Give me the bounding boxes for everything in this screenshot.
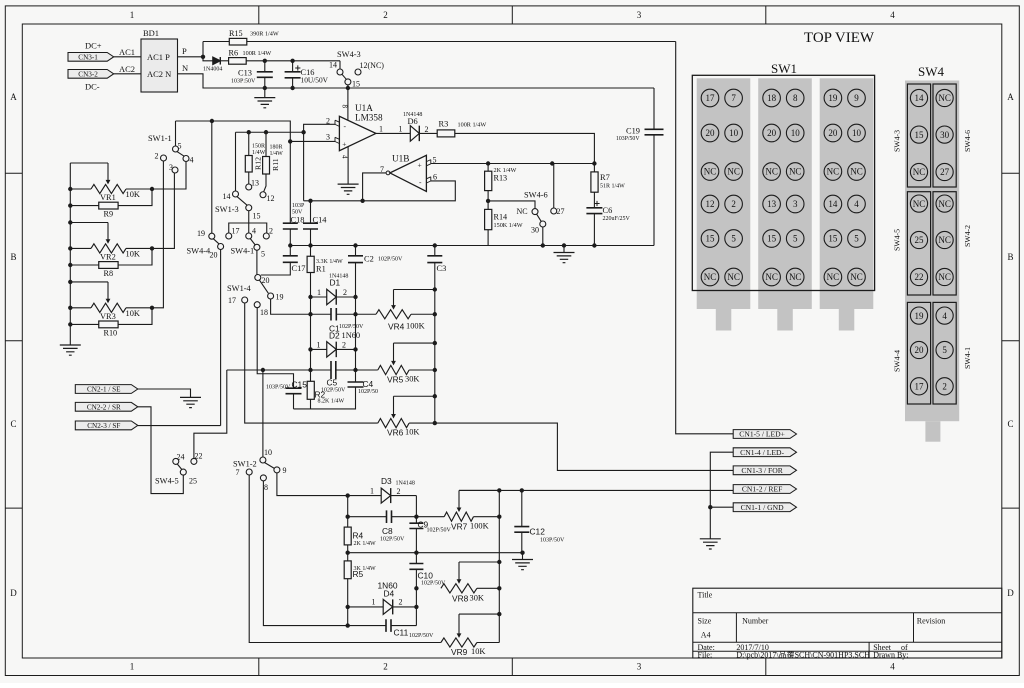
wire R15 branch up [202,42,204,57]
switch SW1-2 pin 10 [260,457,266,463]
wire U1A pin4 to ground [347,147,349,185]
junction R13 top [486,161,490,165]
junction C10 top [414,551,418,555]
wire VR6 row to CN1-3 FOR [435,423,733,470]
connector CN3-2 [68,64,135,92]
potentiometer VR7 [416,490,499,531]
svg-text:C10: C10 [418,571,434,581]
svg-text:R11: R11 [271,158,280,171]
connector CN3-1 [68,41,135,62]
potentiometer VR4 [356,287,437,331]
svg-text:NC: NC [789,272,802,282]
svg-text:103P/50V: 103P/50V [266,385,291,391]
svg-text:51R 1/4W: 51R 1/4W [600,184,625,190]
switch SW4-6 pin NC [532,209,538,215]
svg-text:NC: NC [850,167,863,177]
svg-text:8: 8 [341,105,349,109]
svg-text:7: 7 [731,93,736,103]
switch SW1-4 pin 18 [254,302,260,308]
switch SW1-2 pin 9 [274,467,280,473]
svg-text:1: 1 [130,10,135,20]
svg-text:NC: NC [727,272,740,282]
op-amp U1B [380,154,437,192]
junction VR9 wiper [497,612,501,616]
svg-text:15: 15 [915,130,925,140]
svg-text:2: 2 [342,341,346,350]
switch SW1-3 pin 4 [246,233,252,239]
ground U1A [338,184,359,194]
pins 17 4 2 labels [232,227,274,236]
svg-text:10: 10 [729,128,739,138]
wire REF row [459,489,733,491]
wire R13 node to SW4-6 NC [488,201,535,209]
svg-text:14: 14 [329,61,337,70]
svg-text:CN3-2: CN3-2 [78,70,98,78]
switch SW1-2 pin 8 [260,475,266,481]
svg-text:SW1: SW1 [771,61,797,76]
capacitor C16 electrolytic [285,61,329,88]
svg-text:N: N [182,63,188,73]
svg-text:390R 1/4W: 390R 1/4W [250,31,279,38]
svg-text:100K: 100K [470,522,489,531]
potentiometer VR6 [378,394,437,437]
svg-text:P: P [182,46,187,56]
svg-text:2K 1/4W: 2K 1/4W [354,541,377,547]
svg-text:B: B [10,252,16,262]
switch SW1-1 pin 3 [172,167,178,173]
svg-text:1/4W: 1/4W [252,150,266,156]
svg-text:NC: NC [765,167,778,177]
svg-text:3: 3 [793,199,798,209]
svg-text:4: 4 [252,227,256,236]
svg-text:SW4-6: SW4-6 [524,191,548,200]
switch SW4-4 pin 19 [209,233,215,239]
svg-text:5: 5 [854,234,859,244]
svg-text:NC: NC [850,272,863,282]
svg-text:SW4-2: SW4-2 [963,225,972,247]
svg-text:1N60: 1N60 [342,331,361,340]
svg-text:SW4-4: SW4-4 [893,350,902,372]
svg-text:15: 15 [767,234,777,244]
svg-text:8.2K 1/4W: 8.2K 1/4W [318,399,345,405]
wire CN2-3 to SW4-4 pin20 [138,425,221,427]
resistor R9 [68,189,152,219]
junction R13 R14 node [486,199,490,203]
svg-text:2: 2 [942,382,947,392]
svg-text:CN1-2 / REF: CN1-2 / REF [742,485,783,494]
switch SW1-3 pin 13 [246,184,252,190]
svg-text:D: D [10,588,17,598]
wire VR2 to pin3 [152,173,174,248]
svg-text:102P/50V: 102P/50V [380,537,405,543]
svg-text:CN1-4 / LED-: CN1-4 / LED- [740,448,784,457]
wire pin17 to VR6 row [245,303,378,423]
wire C14 to bus [310,229,312,256]
svg-text:3: 3 [637,10,642,20]
connector CN1-5 LED+ [733,430,796,439]
svg-text:SW4-4: SW4-4 [187,247,212,256]
svg-text:1: 1 [370,487,374,496]
svg-text:2: 2 [155,152,159,161]
resistor R11 [263,132,284,174]
wire pin9 to D3 row [277,473,348,496]
wire pin10 down [262,370,264,457]
svg-text:SW4-1: SW4-1 [963,347,972,369]
svg-text:9: 9 [854,93,859,103]
svg-text:D2: D2 [329,331,340,341]
potentiometer VR8 [441,562,499,604]
junction C8 left [346,515,350,519]
svg-text:17: 17 [915,382,925,392]
junction C3 bus [433,243,437,247]
svg-text:2: 2 [383,10,388,20]
svg-text:Title: Title [698,591,713,600]
svg-text:NC: NC [704,167,717,177]
potentiometer VR1 [68,163,154,202]
wire R13 to R14 [487,191,489,210]
wire U1B pin5 row [431,163,595,165]
op-amp U1A [326,103,383,159]
switch block SW1 [692,75,874,330]
junction ground bus [562,243,566,247]
switch SW4-5 lever [177,464,181,469]
wire row 370 left [227,369,311,371]
wire R14 to GND bus [487,230,489,246]
svg-text:7: 7 [236,468,240,477]
switch SW1-3 pin 17 [226,233,232,239]
svg-text:C: C [1007,419,1013,429]
junction C13 top [263,59,267,63]
svg-text:13: 13 [767,199,777,209]
svg-text:4: 4 [190,156,194,165]
wire CN3-2 to BD1 [114,73,141,75]
svg-text:1: 1 [372,598,376,607]
connector CN1-3 FOR [733,466,796,475]
svg-text:NC: NC [827,272,840,282]
junction C16 top [290,59,294,63]
connector CN2-2 SR [75,402,138,411]
ground below C12 [512,553,533,570]
junction VR8 wiper [497,560,501,564]
svg-text:5: 5 [261,250,265,259]
junction row370 left [308,368,312,372]
resistor R6 [220,49,271,65]
resistor R5 [344,561,376,626]
wire R3 to R7 [455,133,595,163]
wire N rail [178,74,655,88]
capacitor C2 [348,246,403,264]
svg-text:220uF/25V: 220uF/25V [603,216,631,222]
wire SW4-3 pin15 to U1A pin8 [347,85,349,121]
junction C1 right [353,312,357,316]
svg-text:AC2 N: AC2 N [147,69,171,79]
switch SW4-3 pin 14 [337,69,343,75]
switch SW4-4 lever [213,239,219,244]
wire U1A pin2 [304,124,335,201]
svg-text:R4: R4 [353,531,364,541]
svg-text:Size: Size [698,617,712,626]
junction VR7 right [497,515,501,519]
switch SW4-3 lever [342,74,346,79]
svg-text:3: 3 [637,662,642,672]
svg-text:10: 10 [264,448,272,457]
switch SW1-3 lever [237,197,247,206]
svg-text:10: 10 [852,128,862,138]
svg-text:CN2-2 / SR: CN2-2 / SR [87,403,121,411]
svg-text:2: 2 [397,487,401,496]
switch SW4-5 [155,452,203,486]
svg-text:20: 20 [767,128,777,138]
junction C13 bottom [263,86,267,90]
svg-text:NC: NC [913,199,926,209]
svg-text:SW4-6: SW4-6 [963,130,972,152]
wire U1A output [376,132,410,134]
svg-text:4: 4 [890,10,895,20]
svg-text:SW1-4: SW1-4 [227,284,252,293]
svg-text:20: 20 [828,128,838,138]
svg-text:18: 18 [260,308,268,317]
connector CN1-1 GND [733,503,796,512]
svg-text:Drawn By:: Drawn By: [873,651,908,660]
wire CN2-2 to SW4-5 pin25 [138,407,184,494]
svg-text:8: 8 [264,483,268,492]
svg-text:14: 14 [223,192,231,201]
diode D3 [348,476,417,503]
junction R7 top [592,161,596,165]
svg-text:10K: 10K [126,249,140,258]
svg-text:C12: C12 [530,527,546,537]
svg-text:SW4-5: SW4-5 [893,229,902,251]
junction V+ rail [346,86,350,90]
ground CN1 [700,539,721,549]
svg-text:1N4004: 1N4004 [203,67,222,73]
switch SW1-4 pin 19 [268,293,274,299]
junction row370 right [353,368,357,372]
switch SW1-2 pin 7 [246,469,252,475]
resistor R2 [307,381,344,409]
svg-text:30K: 30K [470,594,484,603]
svg-text:103P/50V: 103P/50V [540,538,565,544]
svg-text:C4: C4 [363,379,374,389]
svg-text:C15: C15 [292,380,308,390]
svg-text:30K: 30K [405,375,419,384]
svg-text:NC: NC [727,167,740,177]
svg-text:CN2-1 / SE: CN2-1 / SE [87,386,121,394]
svg-text:C3: C3 [437,264,447,273]
svg-text:CN1-3 / FOR: CN1-3 / FOR [741,466,783,475]
svg-text:20: 20 [706,128,716,138]
switch SW1-3 pin 2 [263,233,269,239]
svg-text:C18: C18 [291,216,305,225]
svg-text:103P: 103P [292,203,305,209]
svg-text:10K: 10K [405,428,419,437]
capacitor C17 [283,256,306,273]
svg-text:17: 17 [232,227,240,236]
wire pin5 down to SW1-4 pin20 [256,250,258,274]
svg-text:BD1: BD1 [143,28,159,38]
svg-text:100R 1/4W: 100R 1/4W [243,50,272,57]
svg-text:2: 2 [399,598,403,607]
switch SW4-1 lever [250,239,255,245]
svg-text:27: 27 [557,207,565,216]
svg-text:VR9: VR9 [451,647,468,657]
svg-text:25: 25 [189,477,197,486]
wire R12 to pin13 [248,172,250,184]
junction R11 top [264,130,268,134]
svg-text:C13: C13 [238,69,252,78]
svg-text:102P/50V: 102P/50V [427,528,452,534]
svg-text:U1B: U1B [392,154,409,164]
svg-text:19: 19 [197,229,205,238]
svg-text:D3: D3 [381,476,392,486]
wire pin18 to C15 [257,308,293,389]
svg-text:LM358: LM358 [355,113,383,123]
wire CN3-1 to BD1 [114,56,141,58]
junction pin3 node [288,139,292,143]
svg-text:SW4-5: SW4-5 [155,477,179,486]
svg-text:2: 2 [343,288,347,297]
switch SW4-4 pin 20 [218,244,224,250]
svg-text:30: 30 [531,226,539,235]
resistor R3 [419,120,486,137]
svg-text:R15: R15 [229,29,243,38]
wire R11 to pin12 [264,174,266,192]
switch SW1-4 [227,276,284,317]
wire row SW1-1 to C18 node [176,121,291,223]
switch SW1-4 lever [259,280,268,293]
switch SW1-3 pin 14 [233,191,239,197]
svg-text:4: 4 [942,311,947,321]
junction D3 row left [346,493,350,497]
svg-text:1: 1 [317,341,321,350]
wire SW1-3 row to U1A pin2 [236,131,304,133]
svg-text:103P/50V: 103P/50V [616,136,640,142]
wire SW1-1 pin5 up [175,121,177,146]
svg-text:102P/50V: 102P/50V [378,257,403,263]
capacitor C3 [427,246,446,274]
junction feedback C14 [308,199,312,203]
svg-text:DC+: DC+ [85,41,102,51]
svg-text:13: 13 [251,179,259,188]
capacitor C9 [409,520,451,564]
svg-text:1: 1 [317,288,321,297]
switch SW4-4 [187,229,218,260]
svg-text:20: 20 [262,276,270,285]
switch SW1-2 lever [265,463,275,469]
svg-text:NC: NC [704,272,717,282]
svg-text:4: 4 [341,155,349,159]
wire pin8 to C11 row [263,481,347,626]
svg-text:12: 12 [706,199,715,209]
svg-text:3: 3 [326,133,330,142]
connector CN1-2 REF [733,485,796,494]
wire R1 to R2 vertical [310,273,312,382]
svg-text:C: C [10,419,16,429]
wire C18 to C17 [289,229,291,256]
svg-text:4: 4 [854,199,859,209]
wire pin30 down [542,227,544,246]
svg-text:102P/50: 102P/50 [358,389,378,395]
ground CN2-1 [180,397,201,407]
svg-text:R3: R3 [439,120,449,129]
junction C2 bus [353,243,357,247]
svg-text:A: A [1007,92,1014,102]
capacitor C12 [514,490,565,552]
svg-text:VR3: VR3 [100,312,116,321]
svg-text:D6: D6 [408,117,418,126]
svg-text:NC: NC [938,93,951,103]
resistor R15 [203,29,279,45]
switch SW1-1 pin 2 [161,155,167,161]
svg-text:A: A [10,92,17,102]
svg-text:C19: C19 [626,127,640,136]
wire P node jog [203,57,213,61]
svg-text:VR1: VR1 [100,193,116,202]
svg-text:VR4: VR4 [388,322,405,332]
junction C16 bottom [290,86,294,90]
svg-text:R12: R12 [254,157,263,170]
wire VR1 to pin4 [152,162,186,190]
junction C6 bus [592,243,596,247]
svg-text:18: 18 [767,93,777,103]
switch SW1-1 lever [177,152,184,157]
wire mid row 552 [348,552,523,554]
resistor R14 [485,209,523,229]
switch SW4-3 [329,50,384,89]
capacitor C19 [616,88,664,246]
svg-text:27: 27 [940,167,950,177]
svg-text:15: 15 [706,234,716,244]
junction D4 left [346,605,350,609]
diode 1N4004 [203,57,222,72]
wire R15 to LED+ rail [247,41,676,43]
wire C17 to SW1-4 pin20 [261,262,291,275]
svg-text:C8: C8 [382,526,393,536]
svg-text:5: 5 [731,234,736,244]
svg-text:6: 6 [433,173,437,182]
junction VR8 right [497,586,501,590]
svg-text:5: 5 [793,234,798,244]
junction C12 top [520,488,524,492]
svg-text:22: 22 [915,272,924,282]
wire U1B pin7 feedback [363,173,387,201]
svg-text:Revision: Revision [917,617,945,626]
svg-text:30: 30 [940,130,950,140]
switch SW1-4 pin 17 [242,297,248,303]
capacitor C5 [311,361,356,394]
svg-text:SW1-1: SW1-1 [148,134,172,143]
capacitor C11 [348,619,434,639]
svg-text:VR2: VR2 [100,252,116,261]
wire LED+ rail down [676,42,734,434]
junction D4 right [414,605,418,609]
svg-text:C5: C5 [327,378,338,388]
svg-text:R14: R14 [494,213,508,222]
svg-text:C11: C11 [394,628,409,638]
svg-text:C6: C6 [603,206,613,215]
switch SW4-1 pin 5 [254,244,260,250]
svg-text:R6: R6 [229,49,239,58]
connector CN1-4 LED- [733,448,796,457]
svg-text:D1: D1 [330,278,341,288]
switch block SW4 [905,81,959,442]
svg-text:File:: File: [698,651,713,660]
junction pin2 vertical [301,130,305,134]
connector CN2-1 SE [75,385,138,394]
svg-text:12: 12 [267,194,275,203]
svg-text:14: 14 [828,199,838,209]
svg-text:DC-: DC- [85,82,100,92]
